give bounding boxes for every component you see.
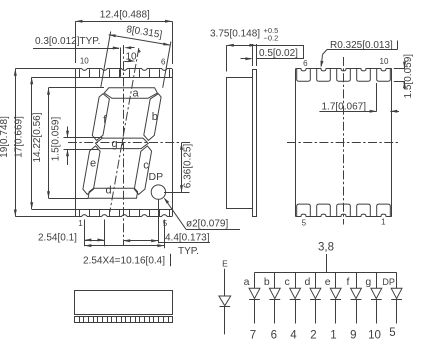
svg-text:g: g	[365, 276, 371, 288]
segment diode g branch wire upper	[376, 272, 378, 288]
legend diode symbol	[219, 296, 231, 307]
front vertical centerline	[123, 45, 125, 246]
diode DP cathode wire	[396, 299, 398, 323]
diode c (LED)	[290, 288, 301, 299]
dimension 2.54[0.1]	[38, 233, 104, 244]
dimension 6.36[0.25]	[164, 143, 193, 193]
back view top pads	[297, 69, 391, 81]
front horizontal centerline	[68, 142, 190, 144]
front tilted digit axis centerline	[110, 48, 139, 212]
digit center cross	[120, 142, 125, 144]
segment a outline	[104, 88, 157, 99]
front view package outline	[75, 69, 172, 217]
svg-text:g: g	[111, 138, 117, 150]
pin extension lines bottom	[85, 199, 165, 248]
dimension 8 extension lines	[101, 32, 171, 88]
svg-text:6: 6	[271, 329, 277, 341]
schematic common anode bus	[255, 272, 397, 274]
label R0.325[0.013] with leader	[321, 40, 398, 68]
svg-text:0.5[0.02]: 0.5[0.02]	[259, 48, 298, 59]
wire from 3,8 to bus	[326, 254, 328, 272]
diode a (LED)	[249, 288, 260, 299]
diode f (LED)	[351, 288, 362, 299]
dimension 4.4[0.173] with TYP	[123, 233, 210, 257]
svg-text:1.7[0.067]: 1.7[0.067]	[322, 102, 367, 113]
dimension 8[0.315] slanted	[109, 34, 171, 45]
segment c outline	[134, 146, 151, 195]
svg-text:e: e	[325, 276, 331, 288]
segment b outline	[144, 94, 161, 141]
back view outline	[296, 69, 392, 217]
diode e cathode wire	[335, 299, 337, 323]
svg-text:6.36[0.25]: 6.36[0.25]	[182, 144, 193, 189]
legend anode wire	[224, 269, 226, 296]
back view horizontal centerline	[287, 142, 400, 144]
label 0.3[0.012]TYP. with leader	[33, 36, 135, 77]
svg-text:ø2[0.079]: ø2[0.079]	[186, 219, 228, 230]
diode DP (LED)	[391, 288, 402, 299]
svg-text:1.5[0.059]: 1.5[0.059]	[403, 54, 414, 99]
svg-text:0.3[0.012]TYP.: 0.3[0.012]TYP.	[35, 36, 100, 47]
svg-text:10: 10	[368, 329, 381, 341]
svg-text:a: a	[244, 276, 250, 288]
dimension 1.5[0.059] g thickness	[51, 117, 103, 165]
svg-text:6: 6	[161, 57, 166, 66]
svg-text:c: c	[143, 159, 149, 171]
svg-text:10: 10	[80, 56, 89, 65]
legend cathode wire	[224, 306, 226, 334]
dimension 2.54X4=10.16[0.4]	[83, 244, 171, 266]
svg-text:5: 5	[389, 327, 395, 339]
svg-text:9: 9	[350, 329, 356, 341]
side view pad layer	[253, 70, 257, 217]
segment diode b branch wire upper	[274, 272, 276, 288]
segment d outline	[88, 188, 138, 198]
diode c cathode wire	[295, 299, 297, 323]
back view bottom pads	[297, 204, 391, 216]
decimal point DP circle	[151, 185, 165, 199]
diode a cathode wire	[254, 299, 256, 323]
svg-text:a: a	[132, 87, 139, 99]
angle 10 degrees callout	[124, 51, 140, 63]
segment diode f branch wire upper	[356, 272, 358, 288]
dimension 3.75[0.148] with tolerance	[210, 26, 278, 71]
label dia 2[0.079] with leader to DP	[164, 197, 240, 229]
svg-text:3.75[0.148]: 3.75[0.148]	[210, 29, 260, 40]
svg-text:1: 1	[381, 218, 386, 227]
svg-text:d: d	[304, 276, 310, 288]
svg-text:5: 5	[302, 219, 307, 228]
svg-text:e: e	[90, 158, 96, 170]
svg-text:c: c	[284, 276, 289, 288]
dimension 1.7[0.067]	[319, 83, 399, 113]
svg-text:1.5[0.059]: 1.5[0.059]	[51, 117, 62, 162]
svg-text:TYP.: TYP.	[178, 246, 199, 257]
svg-text:7: 7	[250, 329, 256, 341]
dimension 19[0.748]	[0, 69, 75, 217]
svg-text:DP: DP	[149, 171, 164, 183]
svg-text:1: 1	[330, 329, 336, 341]
segment f outline	[92, 94, 109, 141]
diode b (LED)	[269, 288, 280, 299]
segment g outline	[96, 138, 149, 149]
diode e (LED)	[330, 288, 341, 299]
dimension 12.4[0.488]	[75, 9, 172, 64]
svg-text:E: E	[222, 259, 228, 269]
diode d (LED)	[310, 288, 321, 299]
segment e outline	[83, 146, 100, 195]
svg-text:10: 10	[380, 57, 389, 66]
svg-text:14.22[0.56]: 14.22[0.56]	[32, 112, 43, 162]
dimension 0.5[0.02]	[241, 44, 304, 66]
dimension 14.22[0.56]	[32, 88, 104, 199]
svg-text:DP: DP	[382, 277, 395, 287]
segment diode DP branch wire upper	[396, 272, 398, 288]
svg-text:4.4[0.173]: 4.4[0.173]	[165, 233, 210, 244]
svg-text:6: 6	[303, 59, 308, 68]
side view body	[227, 78, 253, 209]
segment diode d branch wire upper	[315, 272, 317, 288]
diode f cathode wire	[356, 299, 358, 323]
svg-text:d: d	[105, 185, 111, 197]
svg-text:3,8: 3,8	[318, 241, 334, 253]
segment diode a branch wire upper	[254, 272, 256, 288]
back view vertical centerline	[343, 57, 345, 225]
diode b cathode wire	[274, 299, 276, 323]
svg-text:4: 4	[290, 329, 297, 341]
svg-text:17[0.669]: 17[0.669]	[14, 116, 25, 158]
svg-text:2: 2	[310, 329, 316, 341]
svg-text:b: b	[264, 276, 270, 288]
dimension 1.5[0.059] back right	[394, 54, 414, 99]
svg-text:1: 1	[78, 219, 83, 228]
dimension 17[0.669]	[14, 77, 76, 209]
diode d cathode wire	[315, 299, 317, 323]
svg-text:b: b	[152, 111, 158, 123]
front view top pad separators	[80, 69, 170, 216]
segment labels	[90, 87, 158, 196]
svg-text:−0.2: −0.2	[264, 33, 279, 42]
svg-text:f: f	[347, 276, 350, 288]
bottom view body	[75, 291, 173, 315]
svg-text:19[0.748]: 19[0.748]	[0, 116, 10, 158]
svg-text:2.54X4=10.16[0.4]: 2.54X4=10.16[0.4]	[83, 256, 165, 267]
svg-text:5: 5	[163, 219, 168, 228]
bottom view pad strip	[75, 317, 173, 323]
segment diode e branch wire upper	[335, 272, 337, 288]
diode g (LED)	[371, 288, 382, 299]
svg-text:12.4[0.488]: 12.4[0.488]	[100, 9, 150, 20]
svg-text:2.54[0.1]: 2.54[0.1]	[38, 233, 77, 244]
diode g cathode wire	[376, 299, 378, 323]
segment diode c branch wire upper	[295, 272, 297, 288]
